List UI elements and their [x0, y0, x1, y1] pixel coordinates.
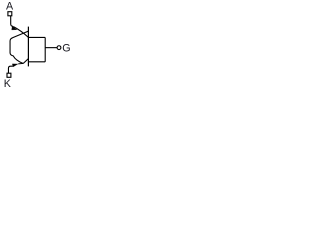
gate box bottom edge — [28, 61, 45, 63]
pin pad A (square terminal) — [8, 12, 12, 16]
anode electrode diagonal to bar — [13, 27, 28, 38]
cathode electrode diagonal from vertex to bar — [23, 59, 28, 64]
pin pad K (square terminal) — [7, 73, 11, 77]
pin circle G — [57, 46, 61, 50]
envelope arc: bar top to left corner, down, to lower vertex — [10, 31, 28, 63]
gate box top edge — [28, 36, 45, 38]
arrowhead on anode electrode (points down-right into device) — [12, 26, 17, 30]
main vertical bar — [27, 27, 29, 67]
arrowhead on cathode electrode (points up-right into device) — [12, 64, 18, 67]
gate wire to G pin — [45, 47, 57, 49]
svg-text:A: A — [6, 1, 14, 13]
svg-text:G: G — [62, 43, 70, 55]
wire from A pad down with bend — [11, 16, 13, 26]
connector from K arrowhead to vertex — [18, 62, 23, 65]
svg-text:K: K — [4, 78, 12, 90]
wire from K pad up with bend — [8, 66, 12, 73]
gate box right edge — [44, 37, 46, 61]
